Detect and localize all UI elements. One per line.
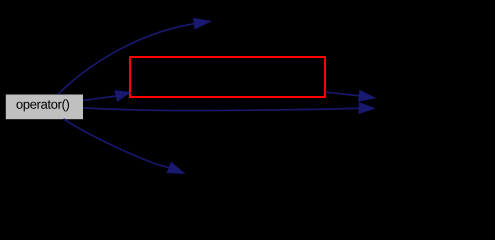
wire edge: operator() to red box xyxy=(83,91,130,101)
wire edge: red box to right node (upper) xyxy=(326,91,376,102)
red truncated node box xyxy=(130,57,325,97)
wire edge: operator() to top node xyxy=(58,19,211,95)
node operator() xyxy=(6,95,83,120)
wire edge: operator() to right node (lower, long) xyxy=(83,103,374,114)
wire edge: operator() to bottom node xyxy=(64,119,185,174)
